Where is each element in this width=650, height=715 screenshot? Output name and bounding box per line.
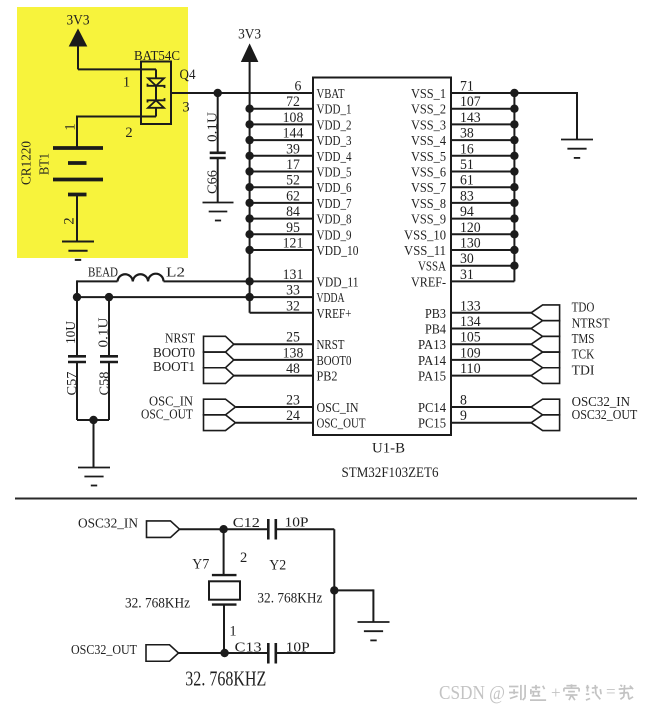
svg-text:131: 131 (283, 267, 304, 283)
svg-text:PC15: PC15 (418, 417, 446, 432)
junction VSS bus row 3 (510, 136, 518, 144)
svg-text:NRST: NRST (165, 331, 195, 346)
wire right rail to ground (334, 589, 373, 621)
net label OSC32_OUT (osc section) (71, 643, 137, 658)
svg-text:OSC32_OUT: OSC32_OUT (572, 408, 638, 423)
svg-text:121: 121 (283, 236, 304, 252)
pin label 2 (Y7) (240, 550, 247, 566)
svg-text:VSS_9: VSS_9 (411, 213, 446, 228)
svg-text:CR1220: CR1220 (20, 141, 35, 185)
designator BT1 (rotated) (38, 153, 53, 175)
port flag TMS (531, 336, 560, 352)
svg-text:PA15: PA15 (418, 370, 446, 385)
junction VDD bus row 5 (245, 167, 253, 175)
svg-text:17: 17 (286, 157, 300, 173)
svg-text:10U: 10U (63, 321, 78, 344)
svg-text:VDD_5: VDD_5 (317, 166, 352, 181)
svg-text:VSSA: VSSA (418, 260, 447, 275)
pin 71 (VSS_1) stub+labels (411, 79, 514, 103)
pin 121 (VDD_10) stub+labels (250, 236, 359, 260)
IC U1-B box (313, 78, 451, 436)
svg-text:PB3: PB3 (425, 307, 446, 322)
svg-text:STM32F103ZET6: STM32F103ZET6 (342, 465, 439, 481)
pin 108 (VDD_2) stub+labels (250, 110, 352, 133)
svg-text:30: 30 (460, 251, 474, 267)
svg-text:VDD_11: VDD_11 (317, 275, 359, 290)
crystal Y7 (209, 529, 240, 653)
junction VDD_11 bus (245, 277, 253, 285)
ground (C57/C58) (78, 468, 110, 486)
pin 61 (VSS_7) stub+labels (411, 173, 514, 197)
svg-text:VDD_6: VDD_6 (317, 181, 352, 196)
port flag BOOT1 (204, 368, 234, 384)
pin 83 (VSS_8) stub+labels (411, 188, 514, 212)
svg-text:48: 48 (286, 361, 300, 377)
svg-text:C57: C57 (64, 371, 79, 395)
svg-text:107: 107 (460, 94, 481, 110)
pin 107 (VSS_2) stub+labels (411, 94, 514, 118)
junction VSS bus row 5 (510, 167, 518, 175)
value 10P (C12) (285, 516, 309, 531)
wire BT1 pin2 to ground (76, 195, 78, 242)
svg-text:2: 2 (125, 125, 132, 141)
port flag OSC32_OUT (right) (531, 415, 560, 431)
value CR1220 (rotated) (20, 141, 35, 185)
svg-text:Q4: Q4 (180, 67, 197, 83)
pin 32 (VREF+) stub+labels (250, 298, 352, 322)
svg-text:OSC_OUT: OSC_OUT (141, 408, 193, 423)
svg-text:VREF+: VREF+ (317, 307, 352, 322)
value 10U (C57, rotated) (63, 321, 78, 344)
wire VSS bus vertical (513, 93, 515, 281)
svg-text:VBAT: VBAT (317, 87, 345, 102)
pin 138 (BOOT0) stub+labels (234, 345, 352, 369)
wire to ground (C57/C58) (93, 420, 95, 468)
svg-text:NRST: NRST (317, 338, 345, 353)
wire Q4 pin2 to BT1 (77, 116, 156, 148)
port flag NTRST (531, 321, 560, 337)
svg-text:VSS_3: VSS_3 (411, 118, 446, 133)
svg-text:OSC32_IN: OSC32_IN (78, 516, 138, 531)
svg-text:VDD_10: VDD_10 (317, 244, 359, 259)
svg-text:U1-B: U1-B (372, 441, 405, 457)
svg-text:61: 61 (460, 173, 474, 189)
pin 110 (PA15) stub+labels (418, 361, 531, 385)
capacitor C58 (100, 297, 118, 420)
svg-text:VDD_4: VDD_4 (317, 150, 352, 165)
net label TMS (572, 332, 595, 347)
svg-text:VSS_1: VSS_1 (411, 87, 446, 102)
svg-text:3: 3 (182, 100, 189, 116)
svg-text:BOOT1: BOOT1 (153, 360, 195, 375)
pin 33 (VDDA) stub+labels (286, 283, 345, 307)
pin label 3 (Q4) (182, 100, 189, 116)
power symbol 3V3 (battery section) (67, 13, 90, 70)
svg-text:3V3: 3V3 (238, 27, 261, 43)
svg-text:1: 1 (63, 123, 79, 130)
svg-text:PA13: PA13 (418, 338, 446, 353)
svg-text:BOOT0: BOOT0 (317, 354, 352, 369)
net label OSC_IN (149, 395, 193, 410)
svg-text:VSS_5: VSS_5 (411, 150, 446, 165)
junction VDD bus row 9 (245, 230, 253, 238)
junction VDDA bus (245, 293, 253, 301)
svg-text:83: 83 (460, 188, 474, 204)
svg-text:C66: C66 (205, 170, 220, 194)
svg-text:31: 31 (460, 267, 474, 283)
junction VSS bus row 1 (510, 105, 518, 113)
designator Y2 (269, 558, 286, 574)
pin 48 (PB2) stub+labels (234, 361, 338, 385)
wire VSS bus to ground (514, 92, 577, 140)
wire L2 to VDD_11 (pin 131) (164, 280, 314, 282)
pin 62 (VDD_7) stub+labels (250, 188, 352, 212)
designator L2 (166, 266, 185, 281)
ground (C66) (203, 203, 234, 221)
wire C12 to right rail (276, 528, 335, 530)
pin label 2 (BT1) (62, 217, 78, 224)
designator C66 (rotated) (205, 170, 220, 194)
svg-text:VDD_3: VDD_3 (317, 134, 352, 149)
junction Y7 top (219, 525, 227, 533)
junction VSS bus row 0 (510, 89, 518, 97)
svg-text:39: 39 (286, 141, 300, 157)
pin 6 (VBAT) stub+labels (295, 79, 345, 103)
svg-text:VDD_1: VDD_1 (317, 103, 352, 118)
net label OSC32_OUT (right) (572, 408, 638, 423)
junction Y7 bottom (220, 649, 228, 657)
svg-text:VDD_2: VDD_2 (317, 118, 352, 133)
net label TCK (572, 348, 595, 363)
junction VDD bus row 3 (245, 136, 253, 144)
pin 84 (VDD_8) stub+labels (250, 204, 352, 228)
port flag NRST (204, 336, 234, 352)
wire L2 left to corner (77, 280, 118, 297)
svg-text:VSS_2: VSS_2 (411, 103, 446, 118)
pin label 1 (BT1) (63, 123, 79, 130)
svg-text:TMS: TMS (572, 332, 595, 347)
junction VSS bus row 6 (510, 183, 518, 191)
pin 94 (VSS_9) stub+labels (411, 204, 514, 228)
svg-text:TDI: TDI (572, 363, 595, 378)
pin 109 (PA14) stub+labels (418, 345, 531, 369)
svg-text:VSS_8: VSS_8 (411, 197, 446, 212)
capacitor C13 (268, 643, 276, 664)
svg-text:3V3: 3V3 (67, 13, 90, 29)
svg-text:71: 71 (460, 79, 474, 95)
svg-text:PA14: PA14 (418, 354, 446, 369)
designator C13 (235, 641, 262, 656)
wire 3V3 VDD bus vertical (249, 62, 251, 313)
pin 24 (OSC_OUT) stub+labels (236, 408, 366, 432)
inductor L2 (118, 274, 164, 282)
highlight region (yellow) (17, 7, 188, 258)
net label OSC32_IN (right) (572, 395, 630, 410)
pin 30 (VSSA) stub+labels (418, 251, 514, 275)
svg-text:6: 6 (295, 79, 302, 95)
value STM32F103ZET6 (342, 465, 439, 481)
svg-text:BEAD: BEAD (88, 266, 118, 281)
label BAT54C (134, 49, 180, 64)
net label NTRST (572, 316, 610, 331)
pin 133 (PB3) stub+labels (425, 298, 531, 322)
junction VDD bus row 6 (245, 183, 253, 191)
pin 72 (VDD_1) stub+labels (250, 94, 352, 118)
value 32.768KHz (left) (125, 596, 190, 612)
value 0.1U (C58, rotated) (96, 317, 111, 347)
svg-text:25: 25 (286, 330, 300, 346)
svg-text:138: 138 (283, 345, 304, 361)
value 32.768KHz (right) (257, 591, 322, 607)
junction C57 tap (73, 293, 81, 301)
svg-text:OSC_IN: OSC_IN (317, 401, 359, 416)
svg-text:Y7: Y7 (192, 556, 209, 572)
pin 52 (VDD_6) stub+labels (250, 173, 352, 197)
pin 105 (PA13) stub+labels (418, 330, 531, 354)
svg-text:NTRST: NTRST (572, 316, 610, 331)
svg-text:2: 2 (62, 217, 78, 224)
net label BOOT1 (153, 360, 195, 375)
svg-text:133: 133 (460, 298, 481, 314)
wire OSC32_OUT to C13 (179, 652, 269, 654)
junction VSS bus row 2 (510, 120, 518, 128)
pin 31 (VREF-) stub+labels (411, 267, 514, 291)
pin 131 (VDD_11) stub+labels (283, 267, 359, 291)
pin label 1 (Y7) (229, 624, 236, 640)
pin 23 (OSC_IN) stub+labels (236, 393, 359, 417)
junction VDD bus row 7 (245, 199, 253, 207)
value 10P (C13) (286, 641, 310, 656)
junction VSS bus row 10 (510, 246, 518, 254)
designator Q4 (180, 67, 197, 83)
pin label 2 (Q4) (125, 125, 132, 141)
net label NRST (165, 331, 195, 346)
pin 120 (VSS_10) stub+labels (404, 220, 514, 244)
ground (oscillator) (358, 622, 390, 640)
junction at C66 tap (214, 89, 222, 97)
svg-text:16: 16 (460, 141, 474, 157)
svg-text:8: 8 (460, 393, 467, 409)
svg-text:VDD_8: VDD_8 (317, 213, 352, 228)
svg-text:VDD_9: VDD_9 (317, 228, 352, 243)
svg-text:0.1U: 0.1U (96, 317, 111, 347)
junction VSS bus row 11 (510, 262, 518, 270)
svg-text:134: 134 (460, 314, 481, 330)
junction VDD bus row 1 (245, 105, 253, 113)
port flag OSC32_IN (osc) (147, 521, 180, 538)
port flag TCK (531, 352, 560, 368)
pin 8 (PC14) stub+labels (418, 393, 531, 417)
svg-text:VSS_7: VSS_7 (411, 181, 446, 196)
svg-text:105: 105 (460, 330, 481, 346)
svg-text:PB4: PB4 (425, 323, 446, 338)
svg-text:33: 33 (286, 283, 300, 299)
svg-text:52: 52 (286, 173, 300, 189)
svg-text:VSS_11: VSS_11 (404, 244, 446, 259)
ground (VSS) (561, 140, 593, 158)
svg-text:CSDN @: CSDN @ (439, 682, 505, 704)
svg-text:108: 108 (283, 110, 304, 126)
ground (battery) (62, 242, 94, 260)
wire 3V3 to Q4 pin1 (78, 68, 156, 70)
svg-text:VREF-: VREF- (411, 275, 446, 290)
net label BOOT0 (153, 346, 195, 361)
wire C57/C58 bottoms (77, 419, 109, 421)
pin 134 (PB4) stub+labels (425, 314, 531, 338)
net label OSC32_IN (osc section) (78, 516, 138, 531)
pin 16 (VSS_5) stub+labels (411, 141, 514, 165)
svg-text:32. 768KHz: 32. 768KHz (125, 596, 190, 612)
svg-text:84: 84 (286, 204, 301, 220)
section separator line (15, 498, 637, 500)
wire Q4 pin3 to VBAT (pin 6) (171, 92, 313, 94)
svg-text:L2: L2 (166, 266, 185, 281)
svg-text:51: 51 (460, 157, 474, 173)
pin 17 (VDD_5) stub+labels (250, 157, 352, 181)
svg-text:BOOT0: BOOT0 (153, 346, 195, 361)
junction VDD bus row 10 (245, 246, 253, 254)
svg-text:9: 9 (460, 408, 467, 424)
junction VSS bus row 8 (510, 214, 518, 222)
port flag OSC32_IN (right) (531, 399, 560, 415)
svg-text:143: 143 (460, 110, 481, 126)
net label OSC_OUT (141, 408, 193, 423)
svg-text:72: 72 (286, 94, 300, 110)
port flag OSC_IN (204, 399, 236, 415)
svg-text:VDD_7: VDD_7 (317, 197, 352, 212)
net label TDI (572, 363, 595, 378)
svg-text:130: 130 (460, 236, 481, 252)
svg-text:23: 23 (286, 393, 300, 409)
port flag TDI (531, 368, 560, 384)
svg-text:TCK: TCK (572, 348, 595, 363)
designator Y7 (192, 556, 209, 572)
pin 25 (NRST) stub+labels (234, 330, 345, 354)
junction C57/C58 ground (89, 416, 97, 424)
designator C12 (233, 516, 260, 531)
svg-text:95: 95 (286, 220, 300, 236)
svg-text:62: 62 (286, 188, 300, 204)
svg-text:=: = (606, 682, 616, 701)
svg-text:C13: C13 (235, 641, 262, 656)
svg-text:BT1: BT1 (38, 153, 53, 175)
pin 9 (PC15) stub+labels (418, 408, 531, 432)
watermark CSDN (439, 682, 633, 704)
capacitor C66 (210, 93, 226, 202)
svg-text:VSS_4: VSS_4 (411, 134, 446, 149)
svg-text:24: 24 (286, 408, 301, 424)
svg-text:32: 32 (286, 298, 300, 314)
svg-text:VSS_6: VSS_6 (411, 166, 446, 181)
svg-text:OSC_OUT: OSC_OUT (317, 417, 366, 432)
svg-text:1: 1 (123, 75, 130, 91)
svg-text:TDO: TDO (572, 301, 595, 316)
svg-text:PB2: PB2 (317, 370, 338, 385)
net label TDO (572, 301, 595, 316)
junction ground tap (right rail) (330, 586, 338, 594)
svg-text:2: 2 (240, 550, 247, 566)
designator C57 (rotated) (64, 371, 79, 395)
pin 51 (VSS_6) stub+labels (411, 157, 514, 181)
pin 143 (VSS_3) stub+labels (411, 110, 514, 133)
svg-text:120: 120 (460, 220, 481, 236)
svg-text:94: 94 (460, 204, 475, 220)
svg-text:PC14: PC14 (418, 401, 446, 416)
port flag TDO (531, 305, 560, 321)
svg-text:32. 768KHz: 32. 768KHz (257, 591, 322, 607)
power symbol 3V3 (VDD bus) (238, 27, 261, 62)
svg-text:+: + (551, 683, 561, 702)
svg-text:1: 1 (229, 624, 236, 640)
value 32.768KHZ (bottom) (185, 667, 266, 691)
designator C58 (rotated) (97, 371, 112, 395)
junction VDD bus row 4 (245, 152, 253, 160)
port flag OSC32_OUT (osc) (146, 645, 179, 662)
designator U1-B (372, 441, 405, 457)
junction VSS bus row 4 (510, 152, 518, 160)
wire C13 to right rail (276, 652, 335, 654)
junction VSS bus row 7 (510, 199, 518, 207)
wire VDDA rail (pin 33) (77, 296, 313, 298)
battery BT1 (53, 148, 103, 195)
label BEAD (88, 266, 118, 281)
junction VSS bus row 9 (510, 230, 518, 238)
svg-text:VSS_10: VSS_10 (404, 228, 446, 243)
pin 95 (VDD_9) stub+labels (250, 220, 352, 244)
junction C58 tap (105, 293, 113, 301)
svg-text:38: 38 (460, 126, 474, 142)
junction VDD bus row 8 (245, 214, 253, 222)
svg-text:0.1U: 0.1U (205, 112, 220, 142)
capacitor C57 (68, 297, 86, 420)
pin 39 (VDD_4) stub+labels (250, 141, 352, 165)
pin label 1 (Q4) (123, 75, 130, 91)
value 0.1U (C66, rotated) (205, 112, 220, 142)
svg-text:109: 109 (460, 345, 481, 361)
svg-text:C58: C58 (97, 371, 112, 395)
port flag BOOT0 (204, 352, 234, 368)
pin 38 (VSS_4) stub+labels (411, 126, 514, 150)
svg-text:VDDA: VDDA (317, 291, 346, 306)
svg-text:Y2: Y2 (269, 558, 286, 574)
capacitor C12 (268, 519, 276, 540)
wire OSC32_IN to C12 (180, 528, 269, 530)
pin 130 (VSS_11) stub+labels (404, 236, 514, 260)
svg-text:110: 110 (460, 361, 481, 377)
pin 144 (VDD_3) stub+labels (250, 126, 352, 150)
svg-text:OSC32_OUT: OSC32_OUT (71, 643, 137, 658)
svg-text:32. 768KHZ: 32. 768KHZ (185, 667, 266, 691)
svg-text:144: 144 (283, 126, 304, 142)
diode Q4 BAT54C (dual schottky) (141, 62, 171, 125)
port flag OSC_OUT (204, 415, 236, 431)
wire right rail vertical (333, 529, 335, 653)
svg-text:C12: C12 (233, 516, 260, 531)
junction VDD bus row 2 (245, 120, 253, 128)
